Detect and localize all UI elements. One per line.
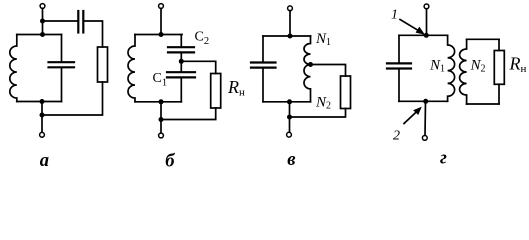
wire resistor to bottom rail [498, 84, 500, 104]
node load return v [287, 115, 292, 120]
node between C2 and C1 [179, 59, 184, 64]
tapped inductor N2 (v) [304, 64, 311, 101]
node J4 (to load return) [40, 113, 45, 118]
tank bottom rail v [263, 101, 311, 103]
wire terminal to node [160, 8, 162, 34]
node top v [288, 34, 293, 39]
wire to terminal v [289, 102, 291, 133]
tank bottom rail [17, 101, 62, 103]
resistor (load, a) [98, 47, 108, 82]
wire resistor to bottom node [290, 109, 346, 118]
terminal top v [288, 6, 293, 11]
tank bottom rail g [399, 100, 448, 102]
inductor N1 (g, primary) [448, 35, 455, 101]
wire J1 to coupling capacitor [43, 20, 78, 22]
wire to terminal b [160, 102, 162, 133]
capacitor (tank, g) [398, 35, 400, 63]
node bottom g [423, 99, 428, 104]
wire to terminal g [424, 101, 427, 135]
terminal bottom v [287, 132, 292, 137]
wire capacitor to resistor branch [84, 21, 103, 47]
arrow 2 [404, 111, 418, 124]
capacitor C1 [167, 71, 195, 73]
svg-text:в: в [287, 150, 295, 170]
wire terminal to node [426, 9, 428, 36]
svg-text:г: г [440, 149, 447, 169]
wire J3 to J4 [41, 102, 43, 133]
svg-text:2: 2 [393, 129, 400, 144]
node load return b [159, 117, 164, 122]
terminal top g [424, 4, 429, 9]
resistor Rn (g) [494, 51, 504, 85]
tapped inductor N1 (v) [304, 36, 310, 65]
resistor Rn (v) [341, 76, 351, 109]
wire rail to resistor [498, 39, 500, 50]
secondary loop top rail [467, 38, 499, 40]
node bottom b [159, 99, 164, 104]
node bottom v [287, 99, 292, 104]
terminal bottom g [422, 136, 427, 141]
capacitor (coupling, top of a) [77, 11, 79, 33]
wire terminal to node J1 [42, 8, 44, 34]
wire top rail to C2 [180, 35, 182, 48]
svg-text:а: а [40, 151, 49, 171]
wire resistor to bottom node [161, 108, 216, 120]
terminal bottom a [40, 132, 45, 137]
node top b [159, 32, 164, 37]
resistor Rn (b) [211, 74, 221, 109]
wire C2 to node [180, 52, 182, 72]
wire node to resistor [181, 61, 215, 73]
inductor N2 (g, secondary) [460, 39, 467, 104]
node top g [424, 33, 429, 38]
inductor L (b) [128, 35, 135, 102]
node J1 (to coupling cap) [40, 19, 45, 24]
node J3 (tank bottom) [40, 99, 45, 104]
arrow 1 [400, 20, 420, 32]
tap wire to resistor [311, 65, 346, 77]
inductor L (a) [10, 35, 17, 102]
tank top rail v [263, 35, 311, 37]
wire terminal to node [289, 11, 291, 36]
tank top rail b [135, 34, 182, 36]
tank top rail g [399, 34, 448, 36]
tank bottom rail b [135, 101, 181, 103]
terminal top a [40, 4, 45, 9]
terminal top b [159, 4, 164, 9]
wire C1 to bottom rail [180, 77, 182, 101]
capacitor C2 [168, 46, 194, 48]
secondary loop bottom rail [467, 103, 499, 105]
tap node [308, 62, 313, 67]
tank top rail [17, 34, 62, 36]
capacitor (tank, v) [262, 36, 264, 62]
wire resistor to bottom node [42, 82, 103, 115]
capacitor (tank, a) [61, 35, 63, 63]
svg-text:б: б [165, 152, 175, 172]
node J2 (tank top) [40, 32, 45, 37]
svg-text:1: 1 [391, 8, 398, 23]
terminal bottom b [159, 133, 164, 138]
